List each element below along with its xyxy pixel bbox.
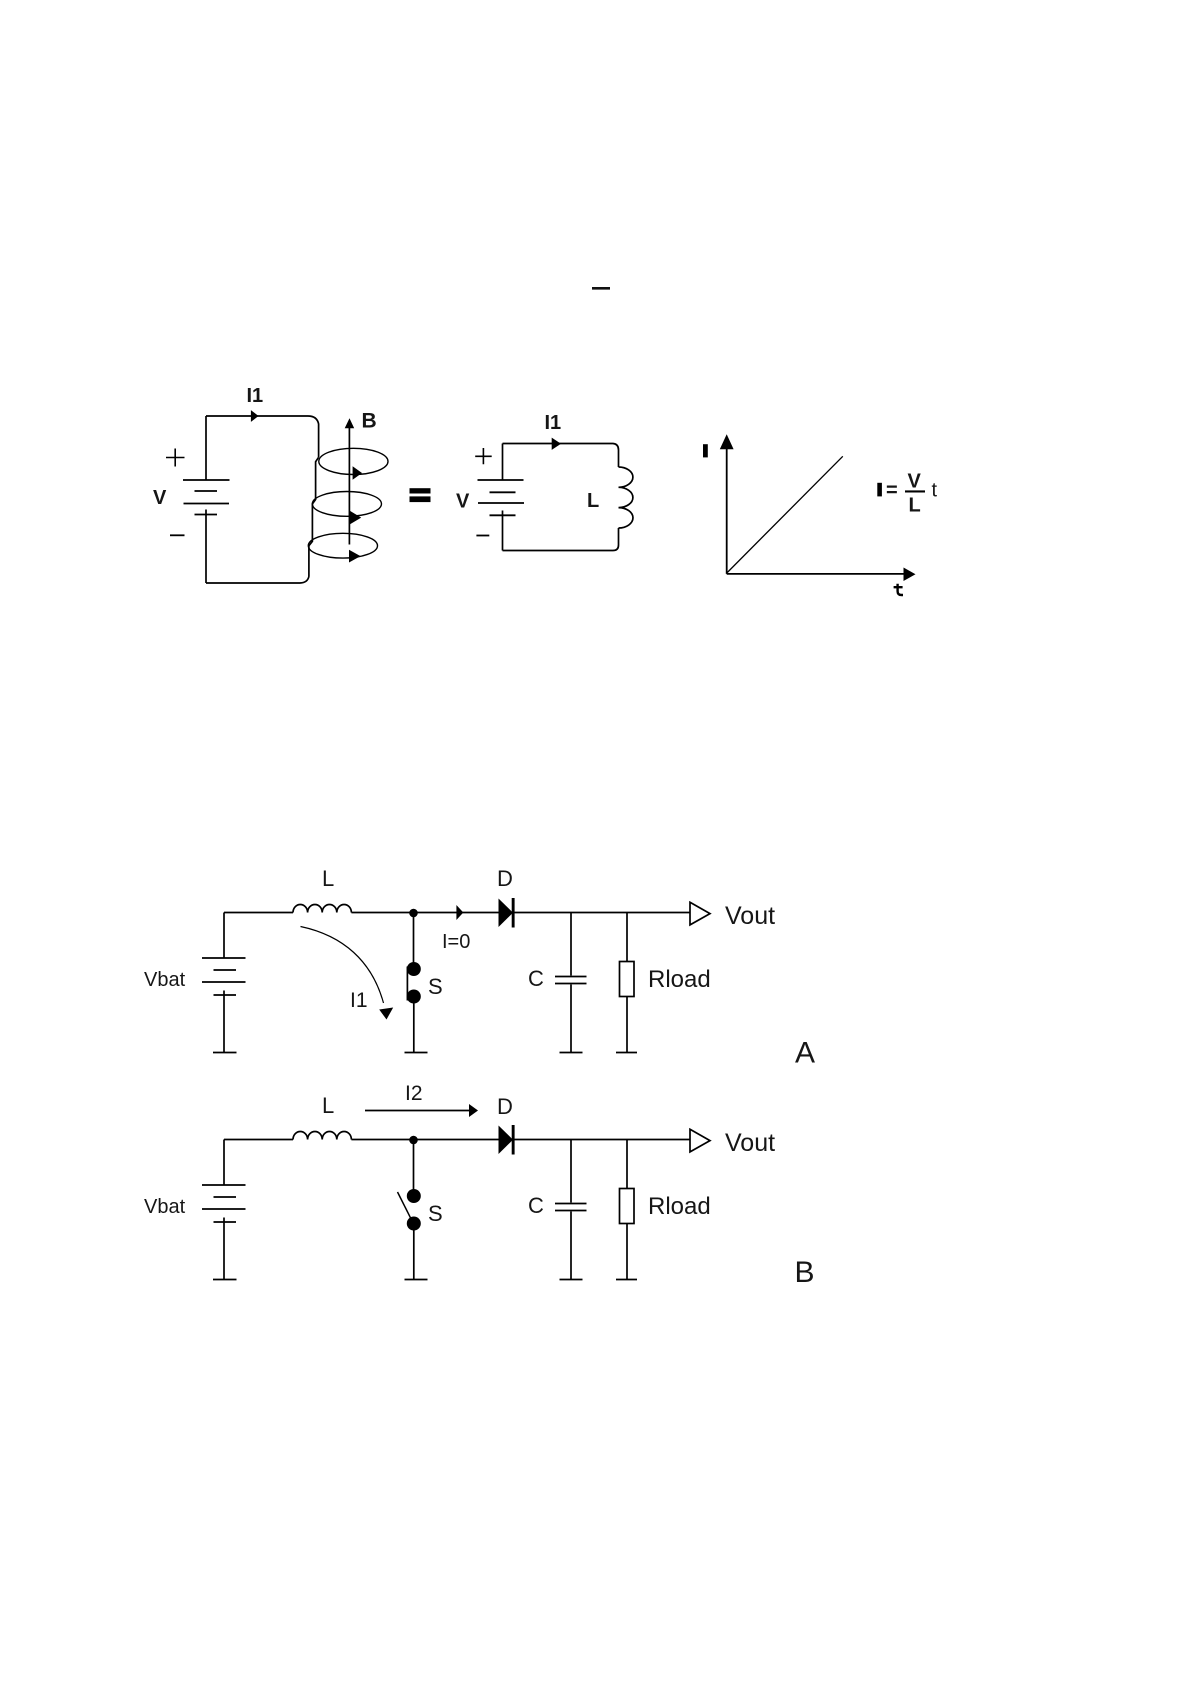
- current arrow I=0 (circuit A): [456, 905, 463, 920]
- node (inductor/diode/switch junction, circuit B): [409, 1136, 418, 1145]
- label I (graph axis): [703, 444, 708, 457]
- wire capacitor top lead (circuit A): [570, 913, 572, 976]
- battery V (right) plates: [478, 480, 525, 515]
- svg-text:Vbat: Vbat: [144, 1196, 186, 1218]
- label t (graph axis): [894, 584, 903, 595]
- wire node to switch (circuit B): [413, 1140, 415, 1190]
- svg-text:D: D: [497, 866, 513, 891]
- svg-text:C: C: [528, 1193, 544, 1218]
- svg-text:=: =: [886, 480, 898, 502]
- svg-text:Rload: Rload: [648, 966, 711, 993]
- wire top left (Vbat to inductor, circuit A): [224, 912, 293, 914]
- battery Vbat bottom terminal bar (circuit A): [213, 1052, 237, 1054]
- svg-text:Rload: Rload: [648, 1193, 711, 1220]
- svg-text:B: B: [795, 1256, 815, 1289]
- svg-text:A: A: [795, 1037, 815, 1070]
- coil loop 3 (ellipse): [308, 533, 377, 558]
- svg-text:V: V: [908, 471, 922, 493]
- wire Rload bottom lead (circuit A): [626, 997, 628, 1053]
- current arrow on top wire (left loop): [251, 410, 259, 422]
- wire left bottom (battery bottom lead, left loop): [205, 510, 207, 584]
- flux arrow on coil loop 1: [353, 466, 362, 480]
- svg-text:L: L: [322, 1093, 334, 1118]
- coil loop 2 (ellipse): [312, 492, 381, 517]
- switch bottom terminal bar (circuit A): [405, 1052, 428, 1054]
- current arrow I2 (circuit B): [365, 1110, 469, 1112]
- minus sign (battery V left): [170, 534, 185, 536]
- svg-text:B: B: [362, 410, 377, 433]
- coil loop 1 (ellipse): [319, 448, 388, 474]
- svg-text:I1: I1: [545, 412, 562, 434]
- inductor L (right circuit winding): [619, 467, 633, 528]
- wire top right (inductor to output, circuit B): [351, 1139, 690, 1141]
- arrowhead of I2 arrow (circuit B): [469, 1104, 478, 1117]
- diode D (circuit A): [499, 898, 515, 928]
- svg-text:S: S: [428, 1201, 443, 1226]
- svg-text:C: C: [528, 966, 544, 991]
- wire left (Vbat top lead, circuit B): [223, 1140, 225, 1185]
- wire bottom (left loop): [206, 577, 309, 584]
- flux arrow on coil loop 2: [350, 511, 361, 525]
- battery V (left) plates: [183, 480, 230, 515]
- formula I = V/L t: [877, 471, 937, 517]
- svg-text:Vout: Vout: [725, 902, 775, 930]
- svg-text:I1: I1: [247, 385, 264, 407]
- wire switch to ground (circuit B): [413, 1230, 415, 1279]
- battery Vbat bottom lead (circuit B): [223, 1218, 225, 1280]
- graph I axis (vertical): [726, 448, 728, 574]
- equals sign between circuits: [410, 488, 431, 502]
- capacitor C plates (circuit A): [555, 977, 587, 984]
- inductor L (circuit A): [293, 905, 351, 913]
- svg-text:L: L: [322, 866, 334, 891]
- wire left top (right circuit battery lead): [502, 444, 504, 480]
- switch S top contact dot (circuit B): [407, 1189, 421, 1203]
- svg-text:V: V: [456, 491, 470, 513]
- svg-text:D: D: [497, 1094, 513, 1119]
- wire Rload top lead (circuit A): [626, 913, 628, 962]
- switch S lever open (circuit B): [398, 1192, 412, 1219]
- wire Rload top lead (circuit B): [626, 1140, 628, 1189]
- switch S top contact dot (circuit A): [407, 962, 421, 976]
- graph t axis arrowhead: [904, 568, 916, 582]
- diode D (circuit B): [499, 1125, 515, 1155]
- Rload bottom terminal bar (circuit A): [616, 1052, 637, 1054]
- flux arrow on coil loop 3: [349, 550, 361, 563]
- inductor L (circuit B): [293, 1132, 351, 1140]
- plus sign (battery V left): [166, 449, 185, 467]
- B field arrowhead: [345, 418, 355, 428]
- Vout output triangle (circuit A): [690, 902, 710, 925]
- battery Vbat bottom lead (circuit A): [223, 991, 225, 1053]
- wire left bottom (right circuit battery lead): [502, 511, 504, 551]
- battery Vbat (circuit B) plates: [202, 1185, 246, 1222]
- wire coil-left zigzag (left loop right side): [309, 457, 319, 576]
- svg-text:I2: I2: [405, 1082, 423, 1105]
- wire Rload bottom lead (circuit B): [626, 1224, 628, 1280]
- wire switch to ground (circuit A): [413, 1003, 415, 1052]
- B field axis line: [348, 428, 350, 545]
- Rload bottom terminal bar (circuit B): [616, 1279, 637, 1281]
- minus sign (battery V right): [476, 535, 489, 537]
- dash (stray fraction-bar mark near top center): [592, 287, 610, 290]
- wire bottom (right circuit): [503, 528, 619, 551]
- plus sign (battery V right): [475, 448, 492, 464]
- wire top right (inductor to output, circuit A): [351, 912, 690, 914]
- capacitor C plates (circuit B): [555, 1204, 587, 1211]
- wire left (Vbat top lead, circuit A): [223, 913, 225, 958]
- wire top left (Vbat to inductor, circuit B): [224, 1139, 293, 1141]
- svg-text:t: t: [932, 480, 938, 502]
- current arrow on top wire (right circuit): [552, 438, 561, 450]
- graph I axis arrowhead: [720, 434, 734, 449]
- wire top (left loop): [206, 416, 319, 457]
- capacitor bottom lead (circuit A): [570, 985, 572, 1053]
- capacitor bottom terminal bar (circuit B): [560, 1279, 583, 1281]
- svg-text:L: L: [909, 495, 921, 517]
- capacitor bottom terminal bar (circuit A): [560, 1052, 583, 1054]
- resistor Rload body (circuit B): [620, 1189, 635, 1224]
- svg-text:Vout: Vout: [725, 1129, 775, 1157]
- curved current arrow I1 (circuit A): [301, 927, 384, 1004]
- wire node to switch (circuit A): [413, 913, 415, 963]
- resistor Rload body (circuit A): [620, 962, 635, 997]
- capacitor bottom lead (circuit B): [570, 1212, 572, 1280]
- switch S lever closed (circuit A): [406, 967, 408, 1001]
- svg-text:Vbat: Vbat: [144, 969, 186, 991]
- svg-text:I1: I1: [350, 989, 368, 1012]
- wire top (right equivalent circuit): [503, 444, 619, 468]
- wire left (left loop, battery top lead): [205, 416, 207, 480]
- switch bottom terminal bar (circuit B): [405, 1279, 428, 1281]
- svg-text:V: V: [153, 487, 167, 509]
- battery Vbat bottom terminal bar (circuit B): [213, 1279, 237, 1281]
- battery Vbat (circuit A) plates: [202, 958, 246, 995]
- node (inductor/diode/switch junction, circuit A): [409, 909, 418, 918]
- svg-text:L: L: [587, 490, 599, 512]
- Vout output triangle (circuit B): [690, 1129, 710, 1152]
- wire capacitor top lead (circuit B): [570, 1140, 572, 1203]
- graph ramp line I = (V/L) t: [727, 456, 843, 572]
- switch S bottom contact dot (circuit A): [407, 990, 421, 1004]
- arrowhead of curved I1 arrow (circuit A): [379, 1008, 393, 1020]
- svg-text:I=0: I=0: [442, 931, 470, 953]
- switch S bottom contact dot (circuit B): [407, 1217, 421, 1231]
- svg-text:S: S: [428, 974, 443, 999]
- graph t axis (horizontal): [727, 573, 905, 575]
